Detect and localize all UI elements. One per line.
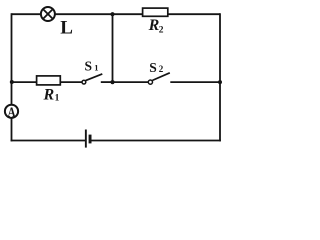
switch S1 (82, 74, 102, 84)
resistor R1 (37, 76, 61, 85)
node A junction dot (10, 80, 14, 84)
svg-text:1: 1 (94, 62, 98, 72)
wire: S1 fixed contact to node B (101, 81, 113, 83)
svg-text:2: 2 (159, 26, 164, 36)
wire: node B to switch S2 (113, 81, 149, 83)
wire: top side (12, 13, 221, 15)
wire: vertical branch node T to node B (112, 14, 114, 82)
wire: left side (11, 13, 13, 141)
wire: bottom side, right of battery (91, 140, 221, 142)
node B junction dot (110, 80, 114, 84)
node T junction dot (110, 12, 114, 16)
ammeter A (5, 105, 18, 118)
svg-text:1: 1 (55, 94, 60, 104)
lamp L (41, 7, 55, 21)
wire: S2 fixed contact to node C (170, 81, 220, 83)
svg-text:S: S (85, 59, 93, 74)
battery: short plate (89, 135, 92, 144)
node C junction dot (218, 80, 222, 84)
svg-text:2: 2 (159, 64, 164, 74)
wire: right side (219, 13, 221, 141)
svg-text:R: R (148, 17, 160, 34)
svg-text:A: A (8, 104, 16, 120)
battery: long plate (85, 130, 87, 148)
wire: bottom side, left of battery (11, 140, 86, 142)
resistor R2 (143, 8, 168, 16)
switch S2 (148, 73, 170, 84)
svg-text:R: R (43, 86, 55, 103)
svg-text:S: S (149, 60, 157, 75)
wire: middle branch, node A through R1 to switch S1 (12, 81, 85, 83)
svg-text:L: L (60, 18, 73, 39)
